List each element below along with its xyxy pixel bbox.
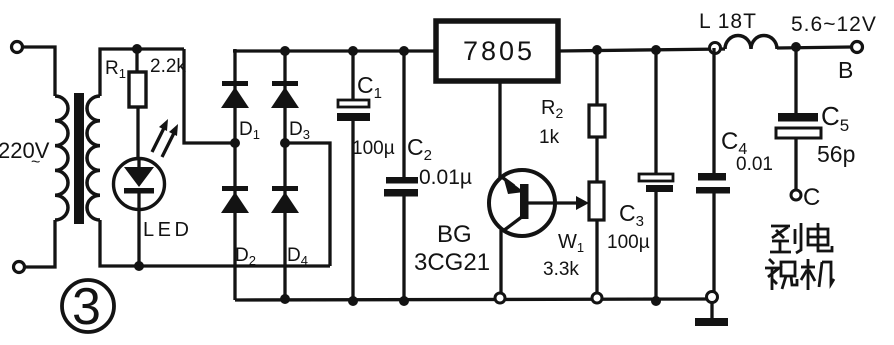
label D3 <box>289 119 310 142</box>
junction LED bottom <box>134 261 144 271</box>
terminal top-left <box>12 42 23 53</box>
label LED <box>143 219 192 241</box>
wire <box>794 47 797 113</box>
svg-text:220V: 220V <box>0 138 50 163</box>
wire AC1 drop <box>184 49 233 143</box>
label 100u <box>607 232 650 253</box>
wire collector down <box>499 230 502 294</box>
label 3CG21 <box>414 249 490 276</box>
label C4 <box>721 128 747 158</box>
wire secondary bottom rail <box>100 220 330 266</box>
label R1 <box>105 58 126 81</box>
svg-text:C1: C1 <box>357 72 382 102</box>
label 100u <box>352 138 395 159</box>
svg-text:L 18T: L 18T <box>699 10 757 33</box>
label L 18T <box>699 10 757 33</box>
svg-text:C: C <box>803 184 820 211</box>
inductor L 18T <box>725 36 777 50</box>
capacitor C2 <box>384 177 418 197</box>
svg-text:C5: C5 <box>821 101 849 135</box>
label C <box>803 184 820 211</box>
diode D3 <box>271 81 299 108</box>
label W1 <box>558 231 584 255</box>
svg-text:5.6~12V: 5.6~12V <box>791 13 877 36</box>
node C1 top <box>348 46 358 56</box>
svg-text:D4: D4 <box>287 245 308 268</box>
capacitor C5 <box>776 113 821 138</box>
resistor R1 <box>129 72 146 107</box>
svg-text:C3: C3 <box>619 200 644 230</box>
label 2.2k <box>150 56 186 77</box>
wire <box>712 193 715 294</box>
wire <box>402 51 405 177</box>
diode D4 <box>271 186 299 213</box>
capacitor C3 <box>639 174 673 192</box>
svg-text:B: B <box>838 57 853 83</box>
svg-text:R1: R1 <box>105 58 126 81</box>
wire secondary top to rail <box>100 49 184 96</box>
wire <box>595 220 598 293</box>
svg-text:100µ: 100µ <box>352 138 395 159</box>
wire <box>777 47 851 48</box>
label dao (到) <box>770 223 801 253</box>
label R2 <box>541 97 563 121</box>
transformer core <box>74 93 84 224</box>
ground rail <box>235 299 710 300</box>
wire <box>136 107 139 160</box>
capacitor C1 <box>337 100 370 121</box>
svg-text:3CG21: 3CG21 <box>414 249 490 276</box>
node AC1 <box>230 138 240 148</box>
wire AC2 riser <box>287 143 330 266</box>
svg-text:56p: 56p <box>817 141 855 167</box>
wire <box>23 47 55 96</box>
wire <box>351 51 354 100</box>
node AC2 <box>280 138 290 148</box>
node D3 top <box>280 46 290 56</box>
svg-text:C2: C2 <box>407 134 432 164</box>
label C5 <box>821 101 849 135</box>
svg-text:D2: D2 <box>235 245 256 268</box>
node C3 top <box>651 45 661 55</box>
node collector bottom <box>495 293 505 303</box>
svg-text:LED: LED <box>143 219 192 241</box>
label BG <box>437 221 472 248</box>
wire <box>712 48 715 173</box>
LED <box>114 159 165 210</box>
svg-text:D3: D3 <box>289 119 310 142</box>
svg-text:3: 3 <box>72 278 101 336</box>
svg-text:2.2k: 2.2k <box>150 56 186 77</box>
svg-text:BG: BG <box>437 221 472 248</box>
node C4 top <box>710 43 721 54</box>
wire <box>595 137 598 182</box>
capacitor C4 <box>696 173 730 194</box>
wire <box>25 220 55 267</box>
label 0.01 <box>736 154 773 175</box>
wire <box>402 196 405 301</box>
svg-text:R2: R2 <box>541 97 563 121</box>
wire <box>351 121 354 301</box>
label 5.6~12V <box>791 13 877 36</box>
label 56p <box>817 141 855 167</box>
svg-text:1k: 1k <box>539 127 560 148</box>
label 0.01u <box>419 166 472 189</box>
bridge top rail <box>233 49 434 52</box>
bridge right branch wire <box>283 49 286 300</box>
wire 7805 output rail <box>558 49 725 51</box>
svg-text:0.01: 0.01 <box>736 154 773 175</box>
wire LED to bottom <box>137 209 140 266</box>
bridge left branch wire <box>233 49 236 300</box>
label 1k <box>539 127 560 148</box>
label C2 <box>407 134 432 164</box>
potentiometer W1 <box>589 182 604 220</box>
svg-text:0.01µ: 0.01µ <box>419 166 472 189</box>
label C1 <box>357 72 382 102</box>
resistor R2 <box>589 105 605 137</box>
svg-text:W1: W1 <box>558 231 584 255</box>
transformer T secondary winding <box>87 96 100 220</box>
diode D1 <box>221 81 249 108</box>
wire <box>654 50 657 174</box>
label D4 <box>287 245 308 268</box>
node C2 bottom <box>399 296 409 306</box>
transistor Q1 <box>489 170 589 236</box>
node C5 top <box>791 42 801 52</box>
label B <box>838 57 853 83</box>
svg-text:7805: 7805 <box>463 36 535 66</box>
label 220V <box>0 138 50 171</box>
LED arrows <box>152 119 178 157</box>
node R1 top <box>132 44 142 54</box>
label shi (视) <box>765 259 797 290</box>
label D1 <box>239 119 260 142</box>
wire 7805 gnd pin <box>498 83 501 180</box>
node D4 bottom <box>280 294 290 304</box>
svg-text:3.3k: 3.3k <box>543 259 579 280</box>
regulator U1 7805 <box>436 21 558 81</box>
node C2 top <box>399 46 409 56</box>
svg-text:D1: D1 <box>239 119 260 142</box>
terminal bottom-left <box>14 262 25 273</box>
wire <box>135 49 138 72</box>
wire <box>794 138 797 190</box>
label 3.3k <box>543 259 579 280</box>
label D2 <box>235 245 256 268</box>
transformer T primary winding <box>55 96 68 220</box>
diode D2 <box>221 186 249 213</box>
node C3 bottom <box>651 296 661 306</box>
wire <box>654 192 657 301</box>
terminal B <box>852 42 863 53</box>
label circled 3 <box>62 278 114 336</box>
node ground <box>707 292 718 303</box>
label dian (电) <box>808 223 832 251</box>
ground <box>695 302 728 326</box>
label C3 <box>619 200 644 230</box>
node R2 top <box>592 45 602 55</box>
node C1 bottom <box>348 296 358 306</box>
svg-text:~: ~ <box>31 154 40 171</box>
terminal C <box>791 190 801 200</box>
wire <box>595 50 598 105</box>
svg-text:100µ: 100µ <box>607 232 650 253</box>
node W1 bottom <box>592 293 602 303</box>
label ji (机) <box>801 259 834 290</box>
